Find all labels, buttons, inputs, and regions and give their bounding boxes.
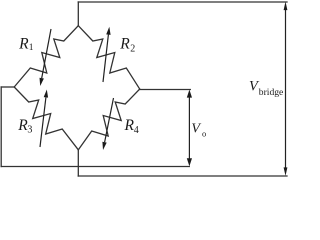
arrowhead Vbridge bottom xyxy=(284,167,288,176)
wire right node to Vo xyxy=(140,89,191,91)
wire left node stub xyxy=(1,86,14,88)
arrowhead R3 xyxy=(44,90,48,98)
resistor R3 xyxy=(14,87,78,150)
svg-text:bridge: bridge xyxy=(259,87,284,98)
wire top node stem xyxy=(77,2,79,26)
svg-text:3: 3 xyxy=(27,125,32,136)
wire left rail xyxy=(0,87,2,167)
svg-text:1: 1 xyxy=(29,43,34,53)
arrow through R3 (up) xyxy=(40,97,46,147)
arrow through R1 (down) xyxy=(42,29,51,78)
arrowhead R1 xyxy=(40,78,44,86)
wire top rail xyxy=(78,1,287,3)
resistor R2 xyxy=(78,26,139,89)
resistor R4 xyxy=(78,89,139,150)
arrow through R2 (up) xyxy=(103,35,108,82)
wire bottom rail xyxy=(78,175,287,177)
wire Vo lower rail xyxy=(1,166,189,168)
Vbridge measure arrow line xyxy=(285,9,287,168)
arrowhead Vo bottom xyxy=(187,158,192,166)
svg-text:R: R xyxy=(119,36,130,53)
arrow through R4 (down) xyxy=(105,98,114,142)
svg-text:o: o xyxy=(202,128,206,138)
svg-text:4: 4 xyxy=(134,125,139,136)
arrowhead R2 xyxy=(106,27,110,35)
svg-text:R: R xyxy=(18,36,29,53)
arrowhead Vo top xyxy=(187,90,192,98)
resistor R1 xyxy=(14,26,78,87)
svg-text:V: V xyxy=(191,122,201,137)
arrowhead R4 xyxy=(102,142,106,150)
Vo measure arrow line xyxy=(188,95,190,160)
wire bottom node stem xyxy=(77,150,79,176)
svg-text:2: 2 xyxy=(130,44,135,55)
arrowhead Vbridge top xyxy=(284,2,288,11)
